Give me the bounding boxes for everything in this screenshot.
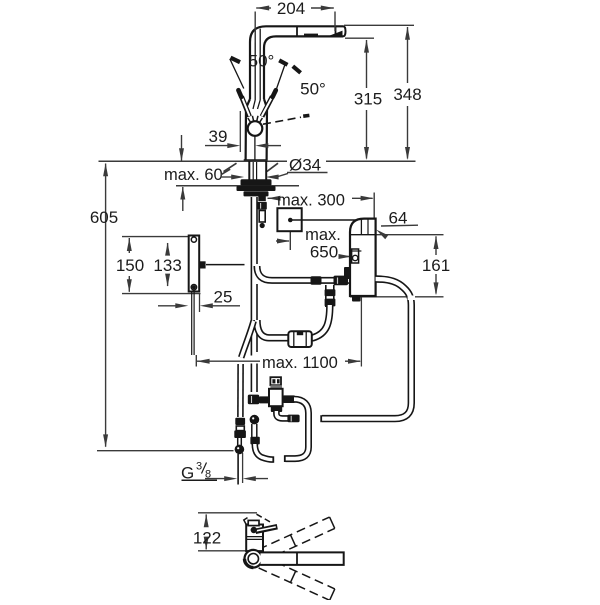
svg-text:39: 39 xyxy=(209,127,228,146)
svg-text:161: 161 xyxy=(422,256,450,275)
svg-text:204: 204 xyxy=(277,0,305,18)
svg-text:max. 1100: max. 1100 xyxy=(262,354,338,372)
svg-text:64: 64 xyxy=(389,209,408,228)
svg-text:605: 605 xyxy=(90,208,118,227)
svg-text:3: 3 xyxy=(196,461,202,473)
svg-text:Ø34: Ø34 xyxy=(289,155,321,174)
svg-text:315: 315 xyxy=(354,89,382,108)
svg-text:max.: max. xyxy=(305,226,341,244)
svg-text:25: 25 xyxy=(214,287,233,306)
svg-text:133: 133 xyxy=(153,256,181,275)
svg-text:50°: 50° xyxy=(300,80,326,99)
svg-text:122: 122 xyxy=(193,528,221,547)
svg-text:348: 348 xyxy=(393,85,421,104)
svg-text:max. 60: max. 60 xyxy=(164,166,223,184)
svg-text:G: G xyxy=(181,463,194,482)
svg-text:50°: 50° xyxy=(249,52,275,71)
svg-text:650: 650 xyxy=(310,242,338,261)
svg-text:max. 300: max. 300 xyxy=(277,191,345,209)
svg-text:150: 150 xyxy=(116,256,144,275)
